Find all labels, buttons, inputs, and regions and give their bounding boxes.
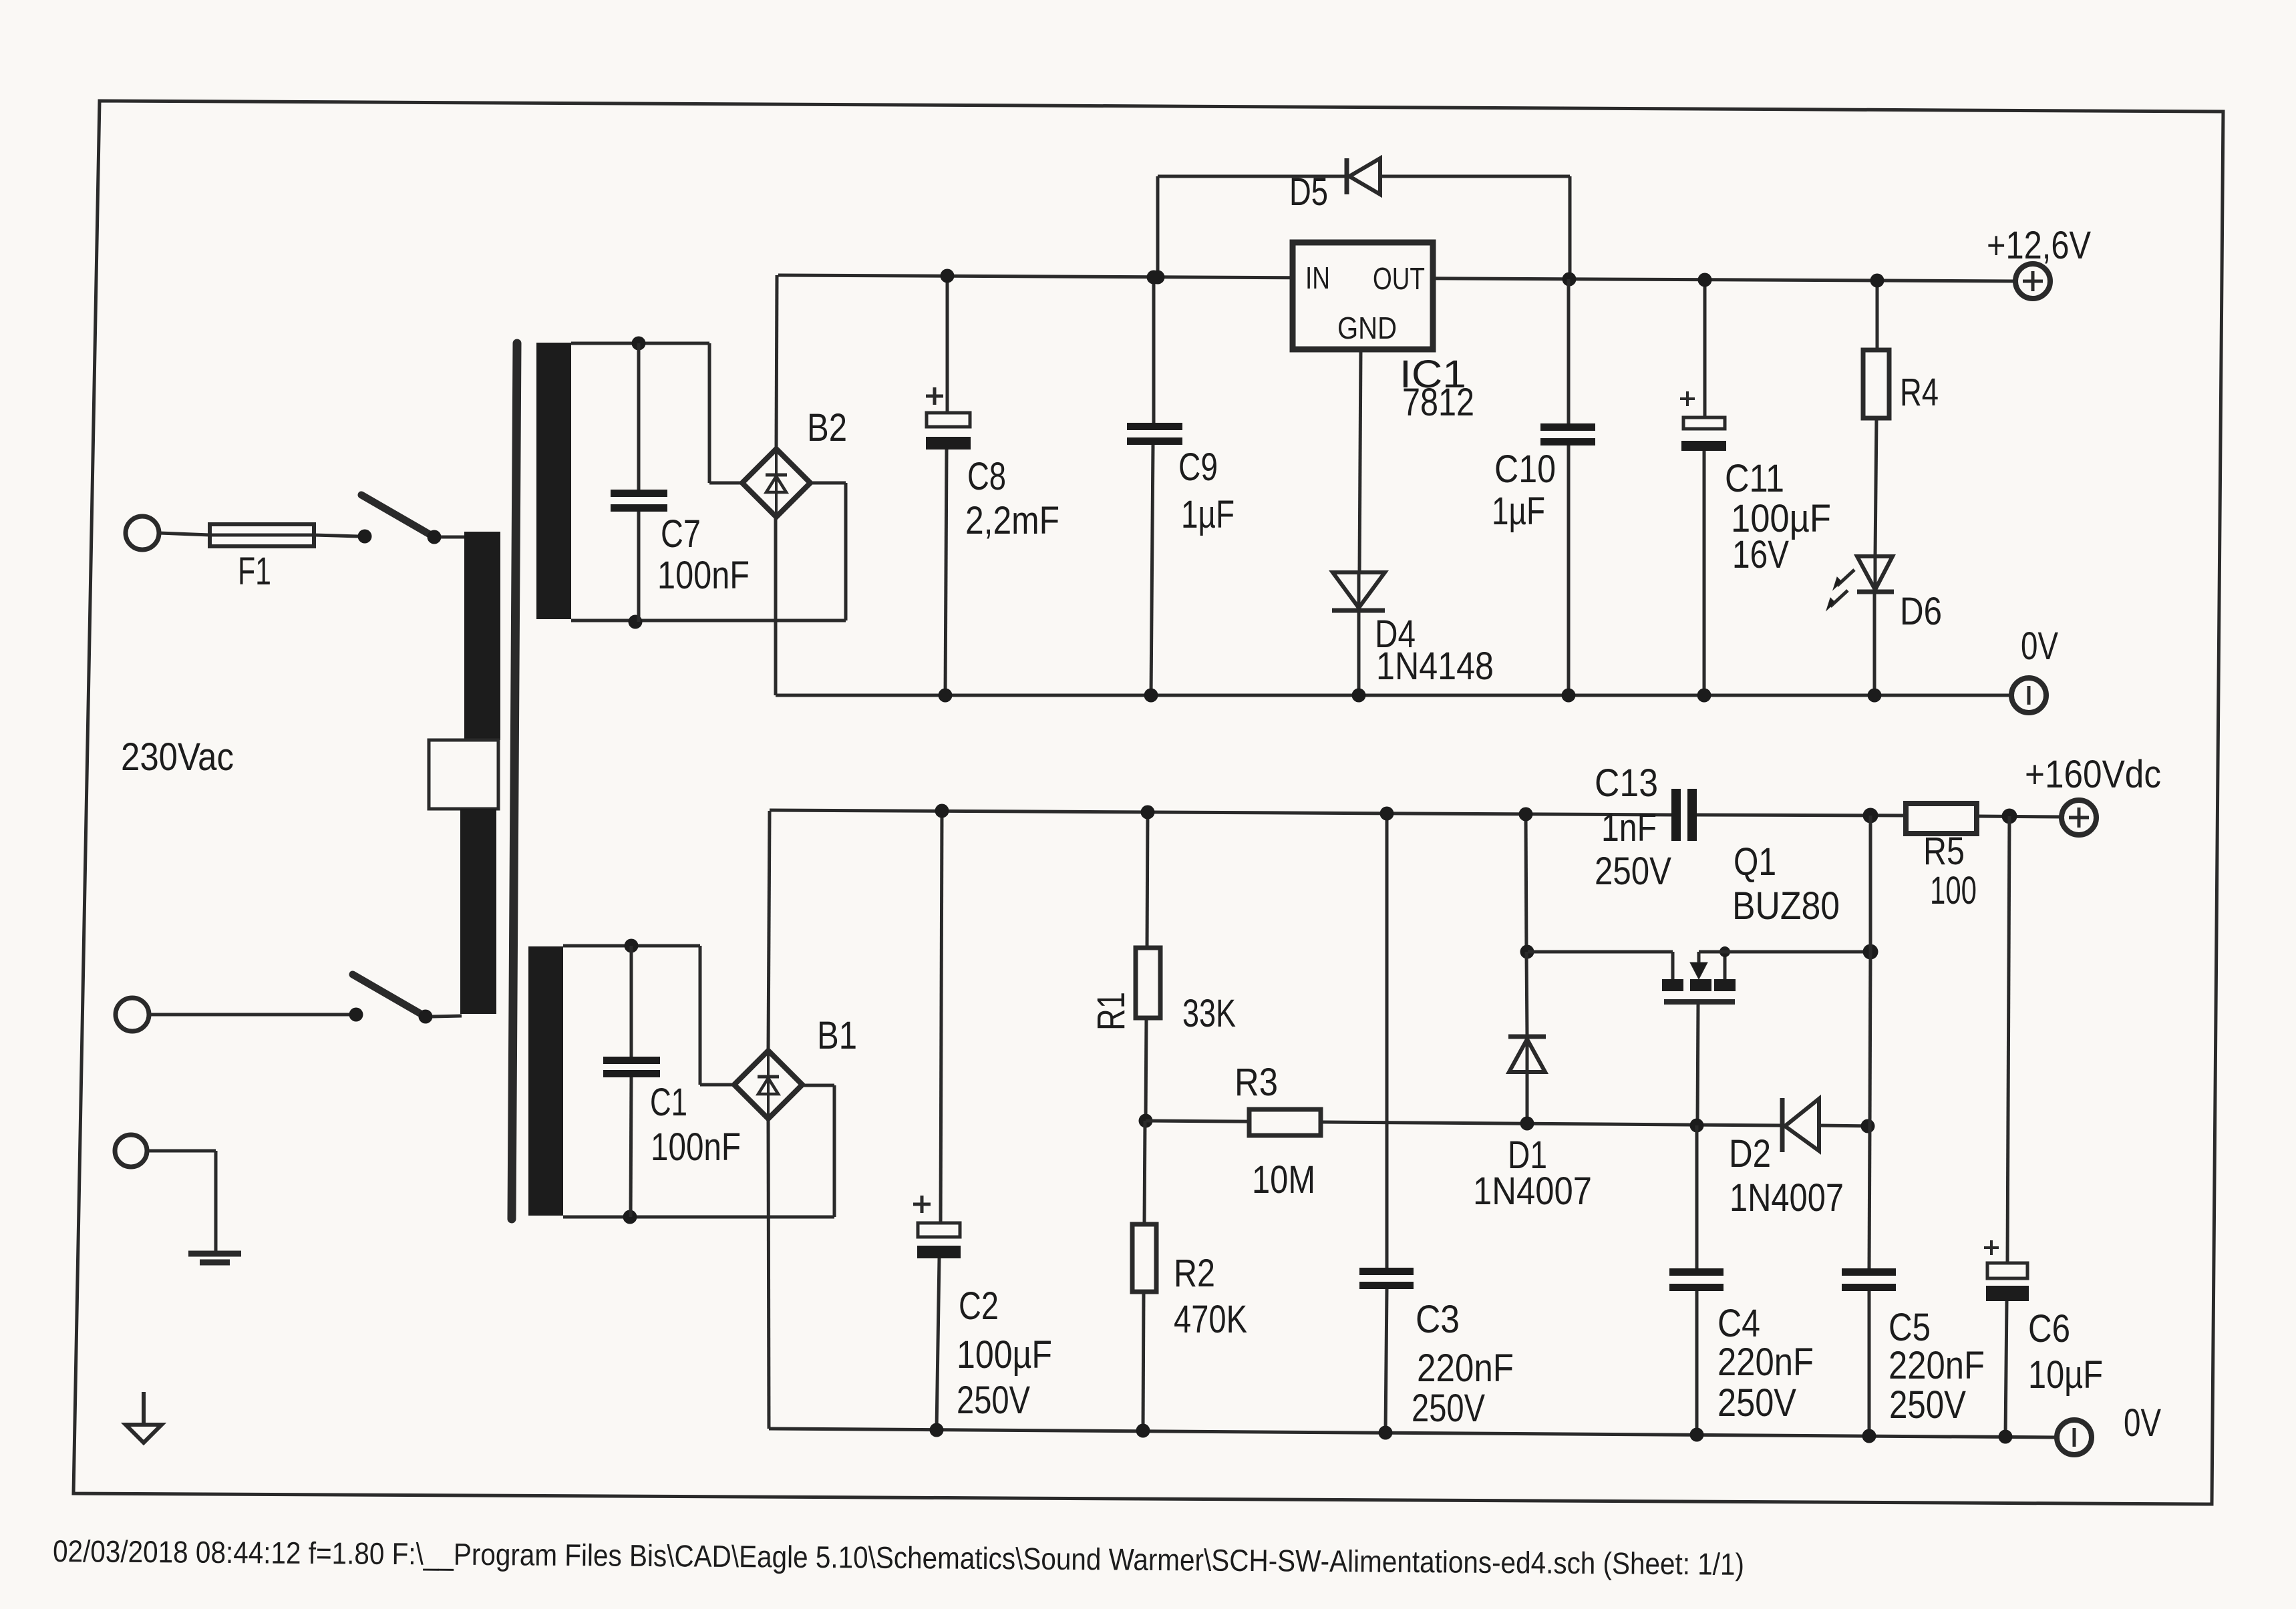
label IC1 — [1400, 353, 1466, 396]
node contact dot S2 — [349, 1008, 363, 1022]
value 10M — [1252, 1158, 1315, 1202]
svg-text:C3: C3 — [1416, 1298, 1460, 1341]
capacitor C7 — [611, 343, 667, 622]
svg-text:C6: C6 — [2028, 1307, 2070, 1351]
wire — [1526, 1072, 1529, 1123]
wire — [159, 533, 210, 535]
svg-text:OUT: OUT — [1373, 261, 1425, 296]
label +160Vdc — [2025, 753, 2161, 796]
label D2 — [1729, 1132, 1771, 1176]
svg-text:B2: B2 — [807, 406, 847, 450]
value 1nF — [1601, 806, 1657, 850]
wire +12V rail — [778, 275, 2015, 281]
wire — [1526, 814, 1526, 952]
svg-text:GND: GND — [1337, 311, 1397, 345]
node contact dot S1 — [358, 530, 372, 544]
label R1 — [1090, 992, 1133, 1031]
value 7812 — [1402, 381, 1474, 424]
node dot — [623, 1210, 637, 1224]
svg-text:C10: C10 — [1494, 448, 1556, 491]
svg-text:100nF: 100nF — [657, 554, 750, 597]
svg-text:D5: D5 — [1289, 170, 1328, 214]
value 220nF C5 — [1889, 1344, 1985, 1387]
svg-text:250V: 250V — [1717, 1381, 1796, 1425]
LED D6 — [1857, 556, 1894, 592]
wire GND pin down — [1359, 349, 1361, 572]
resistor R5 — [1906, 803, 1977, 834]
capacitor C5 — [1842, 1126, 1896, 1436]
svg-text:100µF: 100µF — [957, 1333, 1052, 1377]
svg-text:16V: 16V — [1732, 533, 1789, 576]
wire — [1146, 1018, 1146, 1121]
wire gate bias line — [1146, 1121, 1782, 1125]
transformer primary tap box — [429, 740, 498, 809]
node dot — [930, 1423, 944, 1437]
wire — [1147, 812, 1148, 948]
node dot — [1690, 1119, 1704, 1133]
wire B2 plus up — [776, 275, 777, 449]
node dot — [1563, 273, 1577, 287]
value 1N4007 D2 — [1730, 1176, 1844, 1220]
fuse F1 — [210, 524, 314, 546]
label +12,6V — [1987, 224, 2091, 267]
node dot — [1999, 1430, 2013, 1444]
node dot — [1519, 808, 1533, 822]
diode D2 — [1782, 1098, 1819, 1152]
capacitor C6 — [1986, 1263, 2029, 1437]
terminal +12,6V — [2015, 264, 2050, 299]
label C11 — [1725, 457, 1784, 500]
wire — [1876, 281, 1879, 350]
wire — [1977, 816, 2062, 817]
svg-text:F1: F1 — [238, 550, 271, 593]
label D5 — [1289, 170, 1328, 214]
label C3 — [1416, 1298, 1460, 1341]
label 0V top — [2021, 624, 2058, 668]
svg-text:1N4007: 1N4007 — [1473, 1170, 1592, 1213]
svg-text:2,2mF: 2,2mF — [965, 499, 1059, 542]
node dot — [939, 689, 953, 703]
value 250V C3 — [1412, 1387, 1485, 1430]
node dot — [1520, 945, 1534, 959]
bridge rectifier B1 — [734, 1051, 802, 1119]
svg-text:470K: 470K — [1174, 1298, 1247, 1341]
node dot — [941, 269, 955, 283]
svg-text:+160Vdc: +160Vdc — [2025, 753, 2161, 796]
node dot — [1690, 1428, 1704, 1442]
capacitor C11 — [1681, 280, 1726, 695]
resistor R1 — [1136, 948, 1160, 1018]
node dot — [1352, 689, 1366, 703]
svg-text:1µF: 1µF — [1492, 490, 1545, 533]
wire gate — [1528, 952, 1673, 979]
input terminal pad 1 — [126, 516, 159, 550]
value 100uF C2 — [957, 1333, 1052, 1377]
bridge rectifier B2 — [742, 449, 810, 517]
svg-text:R4: R4 — [1900, 371, 1939, 414]
terminal 0V bottom — [2057, 1420, 2092, 1455]
svg-text:0V: 0V — [2021, 624, 2058, 668]
node dot — [1562, 689, 1576, 703]
wire — [147, 1151, 216, 1252]
svg-text:250V: 250V — [1412, 1387, 1485, 1430]
svg-text:D2: D2 — [1729, 1132, 1771, 1176]
node dot — [1151, 271, 1165, 285]
node dot — [1862, 1429, 1876, 1443]
label R5 — [1923, 830, 1965, 873]
polarity plus C11 — [1680, 391, 1695, 406]
diode D4 — [1332, 572, 1385, 610]
wire — [563, 946, 734, 1085]
wire — [2007, 816, 2009, 1263]
node dot — [632, 337, 646, 351]
input terminal pad 2 — [116, 998, 149, 1031]
wire — [1357, 610, 1361, 695]
node dot small — [1719, 946, 1730, 957]
label C7 — [661, 512, 701, 556]
terminal 0V top — [2011, 678, 2046, 713]
value BUZ80 — [1732, 884, 1840, 928]
svg-text:R3: R3 — [1235, 1061, 1278, 1104]
transformer primary winding lower bar — [460, 809, 496, 1014]
node dot — [1136, 1424, 1150, 1438]
svg-text:C5: C5 — [1889, 1306, 1931, 1349]
node dot — [935, 804, 949, 818]
polarity plus C6 — [1984, 1240, 1999, 1255]
node dot — [1520, 1117, 1534, 1131]
wire 0V rail top section — [776, 694, 2011, 697]
pin label GND — [1337, 311, 1397, 345]
wire — [441, 536, 468, 539]
wire — [571, 343, 744, 483]
capacitor C13 — [1671, 789, 1697, 841]
transistor Q1 — [1662, 952, 1736, 1002]
pin label IN — [1305, 260, 1330, 295]
resistor R4 — [1863, 350, 1889, 418]
svg-text:R2: R2 — [1174, 1252, 1215, 1295]
value 220nF C3 — [1417, 1347, 1514, 1390]
label D6 — [1900, 590, 1942, 633]
svg-text:C4: C4 — [1717, 1302, 1760, 1345]
wire B2 minus down — [774, 517, 778, 695]
wire 0V rail bottom section — [769, 1429, 2057, 1437]
pin label OUT — [1373, 261, 1425, 296]
node dot — [1379, 1426, 1393, 1440]
label 0V bottom — [2124, 1401, 2161, 1445]
value 250V C2 — [957, 1379, 1030, 1422]
value 100nF — [657, 554, 750, 597]
node dot — [1861, 1119, 1875, 1133]
wire drain — [1699, 950, 1870, 954]
svg-text:1N4148: 1N4148 — [1376, 645, 1494, 688]
value 100nF C1 — [651, 1125, 741, 1169]
capacitor C10 — [1540, 279, 1595, 695]
node dot — [1870, 274, 1884, 288]
label D1 — [1508, 1133, 1547, 1177]
value 1uF C9 — [1181, 493, 1235, 536]
label C5 — [1889, 1306, 1931, 1349]
label C2 — [959, 1284, 999, 1328]
switch S1 lever — [361, 495, 442, 544]
svg-text:10µF: 10µF — [2028, 1353, 2103, 1397]
svg-text:1nF: 1nF — [1601, 806, 1657, 850]
value 100 — [1930, 869, 1977, 912]
svg-text:C11: C11 — [1725, 457, 1784, 500]
label C9 — [1178, 445, 1218, 489]
label C10 — [1494, 448, 1556, 491]
wire — [1873, 592, 1876, 695]
node dot — [1863, 808, 1878, 824]
value 1N4007 D1 — [1473, 1170, 1592, 1213]
wire — [1158, 176, 1345, 277]
capacitor C1 — [603, 946, 660, 1217]
label D4 — [1375, 612, 1416, 656]
label R3 — [1235, 1061, 1278, 1104]
value 250V C5 — [1889, 1383, 1966, 1427]
transformer secondary winding lower bar — [528, 946, 563, 1216]
wire +160V rail — [770, 810, 1671, 815]
node dot — [1863, 944, 1878, 960]
value 470K — [1174, 1298, 1247, 1341]
value 220nF C4 — [1717, 1340, 1814, 1384]
svg-text:7812: 7812 — [1402, 381, 1474, 424]
value 2,2mF — [965, 499, 1059, 542]
wire B1 plus up — [768, 811, 770, 1051]
value 250V C13 — [1595, 850, 1671, 893]
node dot — [1380, 807, 1394, 821]
node dot — [1139, 1114, 1153, 1128]
wire — [563, 1085, 834, 1217]
node dot — [629, 615, 643, 629]
value 33K — [1182, 992, 1236, 1035]
svg-text:220nF: 220nF — [1889, 1344, 1985, 1387]
wire — [314, 535, 358, 536]
capacitor C8 — [926, 276, 971, 695]
node dot — [1868, 689, 1882, 703]
transformer core — [512, 343, 517, 1219]
svg-text:250V: 250V — [1595, 850, 1671, 893]
node dot — [1698, 273, 1712, 287]
resistor R3 — [1249, 1109, 1321, 1135]
svg-text:C8: C8 — [967, 455, 1006, 498]
svg-text:D6: D6 — [1900, 590, 1942, 633]
capacitor C4 — [1669, 1125, 1724, 1435]
diode D1 — [1508, 952, 1546, 1072]
terminal +160Vdc — [2062, 800, 2096, 835]
value 1N4148 — [1376, 645, 1494, 688]
svg-text:C7: C7 — [661, 512, 701, 556]
svg-text:100: 100 — [1930, 869, 1977, 912]
label C4 — [1717, 1302, 1760, 1345]
svg-text:10M: 10M — [1252, 1158, 1315, 1202]
label B1 — [817, 1014, 857, 1057]
capacitor C2 — [917, 811, 961, 1430]
wire — [1875, 418, 1876, 556]
label B2 — [807, 406, 847, 450]
label 230Vac — [121, 735, 234, 779]
svg-text:BUZ80: BUZ80 — [1732, 884, 1840, 928]
label C6 — [2028, 1307, 2070, 1351]
label C8 — [967, 455, 1006, 498]
label Q1 — [1734, 840, 1776, 884]
svg-text:C9: C9 — [1178, 445, 1218, 489]
node dot — [1697, 689, 1711, 703]
value 1uF C10 — [1492, 490, 1545, 533]
diode D5 — [1347, 158, 1380, 194]
wire — [1380, 176, 1570, 279]
LED arrows D6 — [1826, 570, 1854, 610]
polarity plus C8 — [926, 387, 943, 405]
input terminal pad 3 (earth) — [115, 1135, 147, 1167]
transformer primary winding upper bar — [464, 532, 500, 740]
node dot — [2002, 809, 2017, 824]
label R4 — [1900, 371, 1939, 414]
svg-text:C2: C2 — [959, 1284, 999, 1328]
label F1 — [238, 550, 271, 593]
svg-text:+12,6V: +12,6V — [1987, 224, 2091, 267]
svg-text:Q1: Q1 — [1734, 840, 1776, 884]
polarity plus C2 — [913, 1196, 931, 1213]
wire — [149, 1013, 349, 1017]
label C1 — [650, 1081, 687, 1124]
supply ground arrow symbol — [126, 1392, 162, 1443]
svg-text:1N4007: 1N4007 — [1730, 1176, 1844, 1220]
wire — [1870, 816, 1870, 1126]
svg-text:230Vac: 230Vac — [121, 735, 234, 779]
wire — [432, 1016, 462, 1017]
node dot — [1147, 271, 1161, 285]
transformer secondary winding upper bar — [536, 343, 571, 619]
svg-text:250V: 250V — [1889, 1383, 1966, 1427]
svg-text:220nF: 220nF — [1717, 1340, 1814, 1384]
wire +160V rail right of C13 — [1697, 815, 1906, 816]
value 250V C4 — [1717, 1381, 1796, 1425]
node dot — [625, 939, 639, 953]
svg-text:R1: R1 — [1090, 992, 1133, 1031]
svg-text:IN: IN — [1305, 260, 1330, 295]
node dot — [1144, 689, 1158, 703]
resistor R2 — [1132, 1121, 1156, 1431]
svg-text:C13: C13 — [1595, 761, 1658, 805]
wire Q1 source down — [1697, 1004, 1698, 1125]
switch S2 lever — [353, 974, 433, 1024]
capacitor C3 — [1359, 814, 1414, 1433]
svg-text:B1: B1 — [817, 1014, 857, 1057]
svg-text:33K: 33K — [1182, 992, 1236, 1035]
svg-text:100nF: 100nF — [651, 1125, 741, 1169]
label R2 — [1174, 1252, 1215, 1295]
regulator IC1 box — [1293, 242, 1433, 349]
svg-text:220nF: 220nF — [1417, 1347, 1514, 1390]
wire — [571, 483, 846, 620]
value 16V — [1732, 533, 1789, 576]
wire B1 minus down — [768, 1119, 769, 1429]
svg-text:R5: R5 — [1923, 830, 1965, 873]
svg-text:0V: 0V — [2124, 1401, 2161, 1445]
value 100uF — [1731, 497, 1831, 540]
footer file path text — [53, 1534, 1744, 1582]
value 10uF — [2028, 1353, 2103, 1397]
capacitor C9 — [1127, 277, 1182, 695]
node dot — [1141, 806, 1155, 820]
wire — [1819, 1125, 1870, 1126]
earth ground symbol — [188, 1254, 241, 1262]
svg-text:C1: C1 — [650, 1081, 687, 1124]
svg-text:1µF: 1µF — [1181, 493, 1235, 536]
svg-text:250V: 250V — [957, 1379, 1030, 1422]
label C13 — [1595, 761, 1658, 805]
